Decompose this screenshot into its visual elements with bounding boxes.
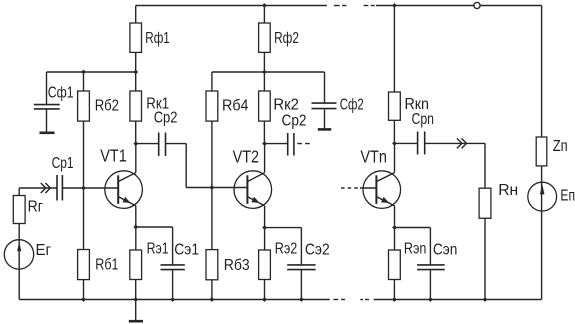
wire top rail dash a	[334, 5, 340, 7]
ground bar	[129, 320, 143, 323]
svg-text:Rб1: Rб1	[95, 257, 118, 274]
wire to VT2 base	[186, 187, 247, 189]
wire VT1 collector	[135, 144, 137, 173]
wire VT2 emitter	[264, 206, 266, 228]
wire top rail dash d	[371, 5, 375, 7]
transistor VTn	[363, 171, 401, 209]
wire VT1 emitter	[135, 206, 137, 227]
wire bottom rail dash a	[334, 299, 339, 301]
capacitor Сф2	[312, 102, 337, 104]
svg-text:Ег: Ег	[36, 242, 52, 259]
resistor Rб2	[78, 91, 90, 121]
wire bottom rail dash d	[365, 299, 369, 301]
wire supply branch top	[541, 6, 543, 138]
wire Rг top lead	[18, 188, 20, 196]
wire down to VT2 base level	[185, 144, 187, 188]
svg-text:Rг: Rг	[28, 199, 43, 216]
wire Сф1 top lead	[46, 72, 48, 104]
node VTn emitter junction	[392, 225, 397, 230]
node Rн bottom junction	[483, 297, 488, 302]
wire Rб3 top lead	[211, 188, 213, 250]
svg-text:VT2: VT2	[233, 147, 260, 167]
node Сэ2 bottom junction	[299, 297, 304, 302]
wire Rэn top lead	[394, 228, 396, 251]
node Rб1 bottom junction	[81, 297, 86, 302]
svg-text:Rэ1: Rэ1	[147, 241, 169, 258]
capacitor Срn	[417, 132, 419, 155]
wire Rб4 top lead	[211, 72, 213, 91]
svg-text:Ср1: Ср1	[52, 155, 74, 172]
wire stage1 decoupled rail	[47, 71, 136, 73]
wire Сф1 bottom lead	[46, 110, 48, 132]
wire bottom rail dash b	[341, 299, 345, 301]
wire Ср1 to VT1 base	[62, 187, 118, 189]
wire Rф2 top lead	[263, 6, 265, 24]
wire Rкn top lead	[393, 6, 395, 93]
svg-text:Сэ2: Сэ2	[305, 241, 330, 258]
wire supply branch through Еп to bottom rail	[541, 166, 543, 300]
impedance Zп	[536, 137, 547, 166]
node Rэ2 bottom junction	[262, 297, 267, 302]
wire Rэ2 top lead	[264, 228, 266, 250]
resistor Rб1	[78, 250, 90, 280]
resistor Rф2	[259, 23, 271, 52]
node Rкn top junction	[392, 3, 397, 8]
wire Rб4 bottom lead	[211, 121, 213, 187]
wire Rэn bottom lead	[393, 280, 395, 300]
resistor Rб3	[206, 250, 218, 280]
svg-text:Rб2: Rб2	[95, 98, 119, 115]
wire bottom rail right section	[374, 299, 542, 301]
wire VTn emitter	[394, 206, 396, 228]
wire stage2 decoupled rail	[212, 71, 325, 73]
node Rэn bottom junction	[392, 297, 397, 302]
arrow input signal direction	[41, 183, 46, 193]
wire top rail right section	[376, 5, 474, 7]
capacitor Сф1	[34, 104, 60, 106]
svg-text:Ср2: Ср2	[282, 113, 307, 130]
wire top rail to supply branch	[480, 5, 541, 7]
transistor VT2	[234, 171, 272, 209]
wire emitter to Сэn	[395, 227, 431, 229]
node VT1 emitter junction	[133, 225, 138, 230]
capacitor Сэ2	[287, 264, 315, 266]
svg-text:VTn: VTn	[360, 147, 387, 167]
wire Rк1 top lead	[135, 72, 137, 91]
terminal open circle on top rail	[474, 2, 480, 8]
wire VT2 collector	[264, 144, 266, 173]
resistor Rк2	[259, 91, 271, 121]
wire VT2 collector to Ср2 stage2	[265, 143, 288, 145]
resistor Rк1	[130, 91, 142, 121]
source Ег arrow	[17, 242, 21, 251]
wire Rк1 bottom lead	[135, 121, 137, 144]
wire top rail dash c	[364, 5, 369, 7]
wire Rб2 bottom lead	[83, 121, 85, 188]
svg-text:Rб4: Rб4	[222, 97, 249, 114]
wire Сэ1 bottom lead	[172, 270, 174, 299]
svg-text:Rэn: Rэn	[404, 241, 427, 258]
svg-text:Rф2: Rф2	[274, 30, 299, 47]
wire Сэn top lead	[429, 228, 431, 265]
wire Rэ1 bottom lead	[135, 280, 137, 300]
resistor Rг	[13, 196, 25, 224]
wire dashed continuation after Ср2 stage2	[297, 143, 311, 145]
wire input from Rг to Ср1	[19, 187, 56, 189]
svg-text:Rф1: Rф1	[145, 30, 170, 47]
resistor Rэ2	[259, 250, 271, 280]
capacitor Ср2 stage1	[158, 133, 160, 157]
wire Rк2 top lead	[263, 72, 265, 91]
wire bottom rail left section	[19, 299, 330, 301]
wire top supply rail left section	[136, 5, 327, 7]
ground Сф2 common bar	[318, 128, 331, 131]
svg-text:Еп: Еп	[560, 188, 575, 205]
wire Rн bottom lead	[484, 218, 486, 299]
wire Rф1 bottom lead	[135, 52, 137, 72]
node VT2 emitter junction	[262, 225, 267, 230]
svg-text:Rб3: Rб3	[224, 257, 250, 274]
wire emitter to Сэ1	[136, 226, 173, 228]
resistor Rф1	[130, 23, 142, 52]
svg-text:Zп: Zп	[553, 138, 568, 155]
wire VTn collector	[394, 143, 396, 172]
wire Сэn bottom lead	[429, 270, 431, 299]
wire VTn base	[360, 187, 377, 189]
svg-text:Ср2: Ср2	[154, 109, 178, 126]
transistor VT1	[105, 171, 143, 209]
svg-text:Сф2: Сф2	[340, 96, 364, 113]
wire output down to Rн	[484, 143, 486, 188]
wire Rб3 bottom lead	[211, 280, 213, 300]
wire Rб2 top lead	[83, 72, 85, 91]
resistor Rэ1	[130, 250, 142, 280]
node Сэn bottom junction	[428, 297, 433, 302]
wire VTn collector to Срn	[395, 142, 418, 144]
capacitor Ср2 stage2	[287, 133, 289, 156]
wire Ср2 to corner	[166, 143, 187, 145]
capacitor Сэ1	[161, 264, 185, 266]
svg-text:Сэn: Сэn	[433, 241, 458, 258]
wire Rф1 top lead	[135, 6, 137, 24]
wire Rк2 bottom lead	[263, 121, 265, 144]
wire emitter to Сэ2	[265, 227, 302, 229]
wire Сф2 bottom lead	[324, 109, 326, 128]
wire Сэ2 bottom lead	[300, 270, 302, 299]
svg-text:Rк2: Rк2	[273, 97, 299, 114]
wire Rэ1 top lead	[135, 227, 137, 250]
ground stub	[135, 300, 137, 321]
node Rб2 top junction	[81, 70, 86, 75]
resistor Rн	[479, 188, 491, 218]
resistor Rкn	[389, 92, 401, 120]
resistor Rб4	[206, 91, 218, 121]
svg-text:VT1: VT1	[100, 146, 127, 166]
node Rк1 top junction	[133, 70, 138, 75]
wire dashed into VTn base	[341, 187, 360, 189]
node VT1 collector junction	[133, 141, 138, 146]
wire top rail dash b	[342, 5, 346, 7]
source Еп arrow	[540, 184, 545, 194]
node Rб3 bottom junction	[210, 297, 215, 302]
wire Сэ1 top lead	[172, 227, 174, 264]
node Сэ1 bottom junction	[170, 297, 175, 302]
node Rэ1 ground junction	[133, 297, 138, 302]
wire bottom rail dash c	[360, 299, 363, 301]
wire Сэ2 top lead	[300, 228, 302, 265]
wire Rф2 bottom lead	[263, 52, 265, 72]
wire Срn to output	[425, 142, 485, 144]
capacitor Ср1	[56, 175, 58, 201]
wire Rб1 bottom lead	[83, 280, 85, 300]
wire Сф2 top lead	[324, 72, 326, 103]
node VT2 base bias junction	[210, 185, 215, 190]
wire Rэ2 bottom lead	[264, 280, 266, 300]
svg-text:Срn: Срn	[412, 111, 435, 128]
capacitor Сэn	[417, 264, 445, 266]
source Еп circle	[528, 182, 557, 211]
svg-text:Сэ1: Сэ1	[174, 241, 199, 258]
svg-text:Сф1: Сф1	[48, 85, 74, 102]
wire Rкn bottom lead	[393, 120, 395, 143]
ground Сф1 common bar	[40, 132, 55, 135]
node VT2 collector junction	[262, 141, 267, 146]
wire Rб1 top lead	[83, 188, 85, 250]
node VTn collector junction	[392, 141, 397, 146]
source Ег circle	[4, 240, 33, 269]
node Rф2 top junction	[262, 3, 267, 8]
wire VT1 collector to Ср2	[136, 143, 159, 145]
svg-text:Rэ2: Rэ2	[275, 241, 298, 258]
wire Rг bottom lead through Ег to bottom rail	[18, 224, 20, 300]
arrow output signal direction	[457, 138, 462, 148]
node Rк2 top junction	[262, 70, 267, 75]
resistor Rэn	[389, 250, 401, 280]
node VT1 base bias junction	[81, 186, 86, 191]
svg-text:Rн: Rн	[498, 182, 518, 199]
